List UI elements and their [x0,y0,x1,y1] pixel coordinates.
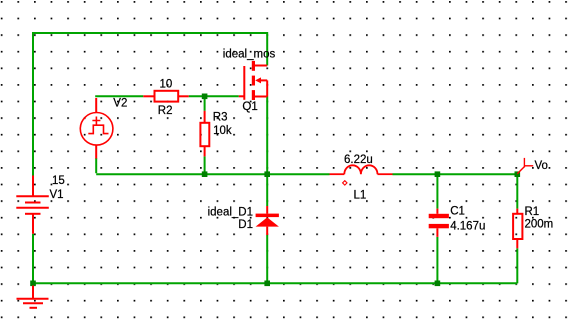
svg-text:R3: R3 [213,112,228,124]
svg-text:Vo: Vo [535,160,548,172]
svg-text:6.22u: 6.22u [344,154,373,166]
svg-text:4.167u: 4.167u [450,221,485,233]
svg-text:R1: R1 [525,206,540,218]
svg-text:200m: 200m [525,218,554,230]
svg-text:L1: L1 [354,190,367,202]
svg-text:V2: V2 [113,97,127,109]
svg-text:10k: 10k [213,125,232,137]
svg-text:ideal_mos: ideal_mos [223,49,276,61]
svg-text:15: 15 [52,175,65,187]
svg-text:D1: D1 [238,219,253,231]
svg-text:10: 10 [160,79,173,91]
svg-text:Q1: Q1 [242,101,257,113]
svg-text:R2: R2 [158,105,173,117]
svg-text:V1: V1 [50,189,64,201]
svg-text:C1: C1 [450,206,465,218]
svg-text:ideal_D1: ideal_D1 [208,206,253,218]
